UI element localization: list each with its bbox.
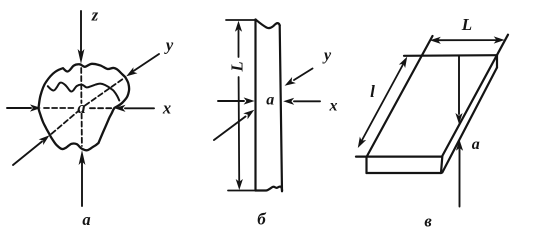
y axis dashed segment upper: [85, 79, 124, 106]
thickness a arrowhead down: [455, 113, 462, 124]
x axis dashed line left of center: [44, 107, 74, 109]
thickness a lower arrow line: [459, 149, 461, 207]
dimension L arrowhead left: [430, 37, 441, 44]
plate front face right edge: [441, 157, 442, 173]
bottom arrowhead up: [79, 150, 86, 165]
svg-text:y: y: [322, 47, 332, 64]
x axis dashed line right of center: [90, 107, 112, 109]
right diagonal arrowhead down-left: [283, 77, 296, 89]
svg-text:а: а: [82, 210, 90, 229]
svg-text:в: в: [424, 212, 432, 231]
plate front face bottom edge: [367, 172, 442, 174]
right horizontal arrow line: [294, 100, 320, 102]
figure b: bar of length L thickness a: [214, 20, 338, 229]
svg-text:a: a: [77, 98, 85, 117]
svg-text:a: a: [266, 92, 274, 109]
left diagonal arrowhead up-right: [243, 107, 256, 119]
x axis left arrow line: [7, 107, 31, 109]
dimension l line: [362, 65, 403, 141]
z axis arrowhead down: [78, 49, 85, 64]
svg-text:L: L: [461, 15, 472, 34]
z axis dashed segment inside body: [80, 68, 82, 103]
dimension L line lower segment: [238, 77, 241, 181]
svg-text:a: a: [472, 136, 480, 153]
dimension L line upper segment: [238, 30, 240, 57]
plate front top edge with left extension: [356, 156, 442, 158]
bottom extension tick: [228, 190, 259, 192]
bar bottom break wave: [256, 187, 283, 192]
dimension l arrowhead down-left: [355, 137, 367, 150]
left diagonal arrow line: [214, 117, 246, 141]
figure v: plate L x l x a: [355, 15, 508, 231]
right horizontal arrowhead left: [283, 98, 294, 105]
dimension arrowhead up: [235, 21, 242, 32]
bar top break wave: [256, 20, 280, 29]
bar right edge: [280, 25, 282, 191]
x axis left arrowhead right: [30, 104, 41, 111]
z axis dashed segment below center: [81, 114, 83, 147]
plate right face bottom edge: [442, 68, 497, 173]
y axis lower arrow line: [13, 142, 42, 166]
thickness a arrowhead up: [456, 140, 463, 151]
right diagonal arrow line: [294, 69, 313, 81]
plate front face left edge: [365, 157, 367, 173]
y axis lower arrowhead up-right: [39, 132, 52, 145]
blob inner fold wavy line: [48, 83, 120, 101]
z axis arrow line (top, pointing down): [80, 11, 82, 52]
bar left edge: [254, 20, 256, 191]
plate rear top edge with left extension: [404, 54, 497, 57]
svg-text:L: L: [228, 61, 247, 72]
svg-text:l: l: [370, 82, 375, 101]
blob body outline: [39, 64, 130, 151]
figure a: body under all-round compression: [7, 6, 174, 230]
dimension L arrowhead right: [494, 36, 505, 43]
left horizontal arrow line: [218, 100, 244, 102]
plate right edge with upper extension tick: [442, 35, 508, 157]
svg-text:б: б: [257, 210, 267, 229]
svg-text:y: y: [164, 36, 174, 55]
plate left edge with upper extension tick: [367, 36, 433, 157]
svg-text:x: x: [329, 98, 338, 115]
svg-text:x: x: [162, 99, 171, 118]
bottom compression arrow line (pointing up): [81, 157, 83, 206]
left horizontal arrowhead right: [244, 97, 255, 104]
dimension L line: [438, 39, 496, 41]
plate rear right vertical edge: [496, 55, 498, 67]
thickness a upper arrow line: [458, 57, 460, 115]
dimension arrowhead down: [236, 179, 243, 190]
top extension tick: [226, 19, 256, 21]
x axis right arrowhead left: [115, 105, 126, 112]
y axis upper arrow line: [134, 54, 160, 71]
svg-text:z: z: [91, 6, 99, 25]
x axis right arrow line: [125, 107, 154, 109]
y axis dashed segment lower: [52, 111, 80, 134]
y axis upper arrowhead down-left: [124, 67, 137, 79]
dimension l arrowhead up-right: [399, 55, 411, 68]
